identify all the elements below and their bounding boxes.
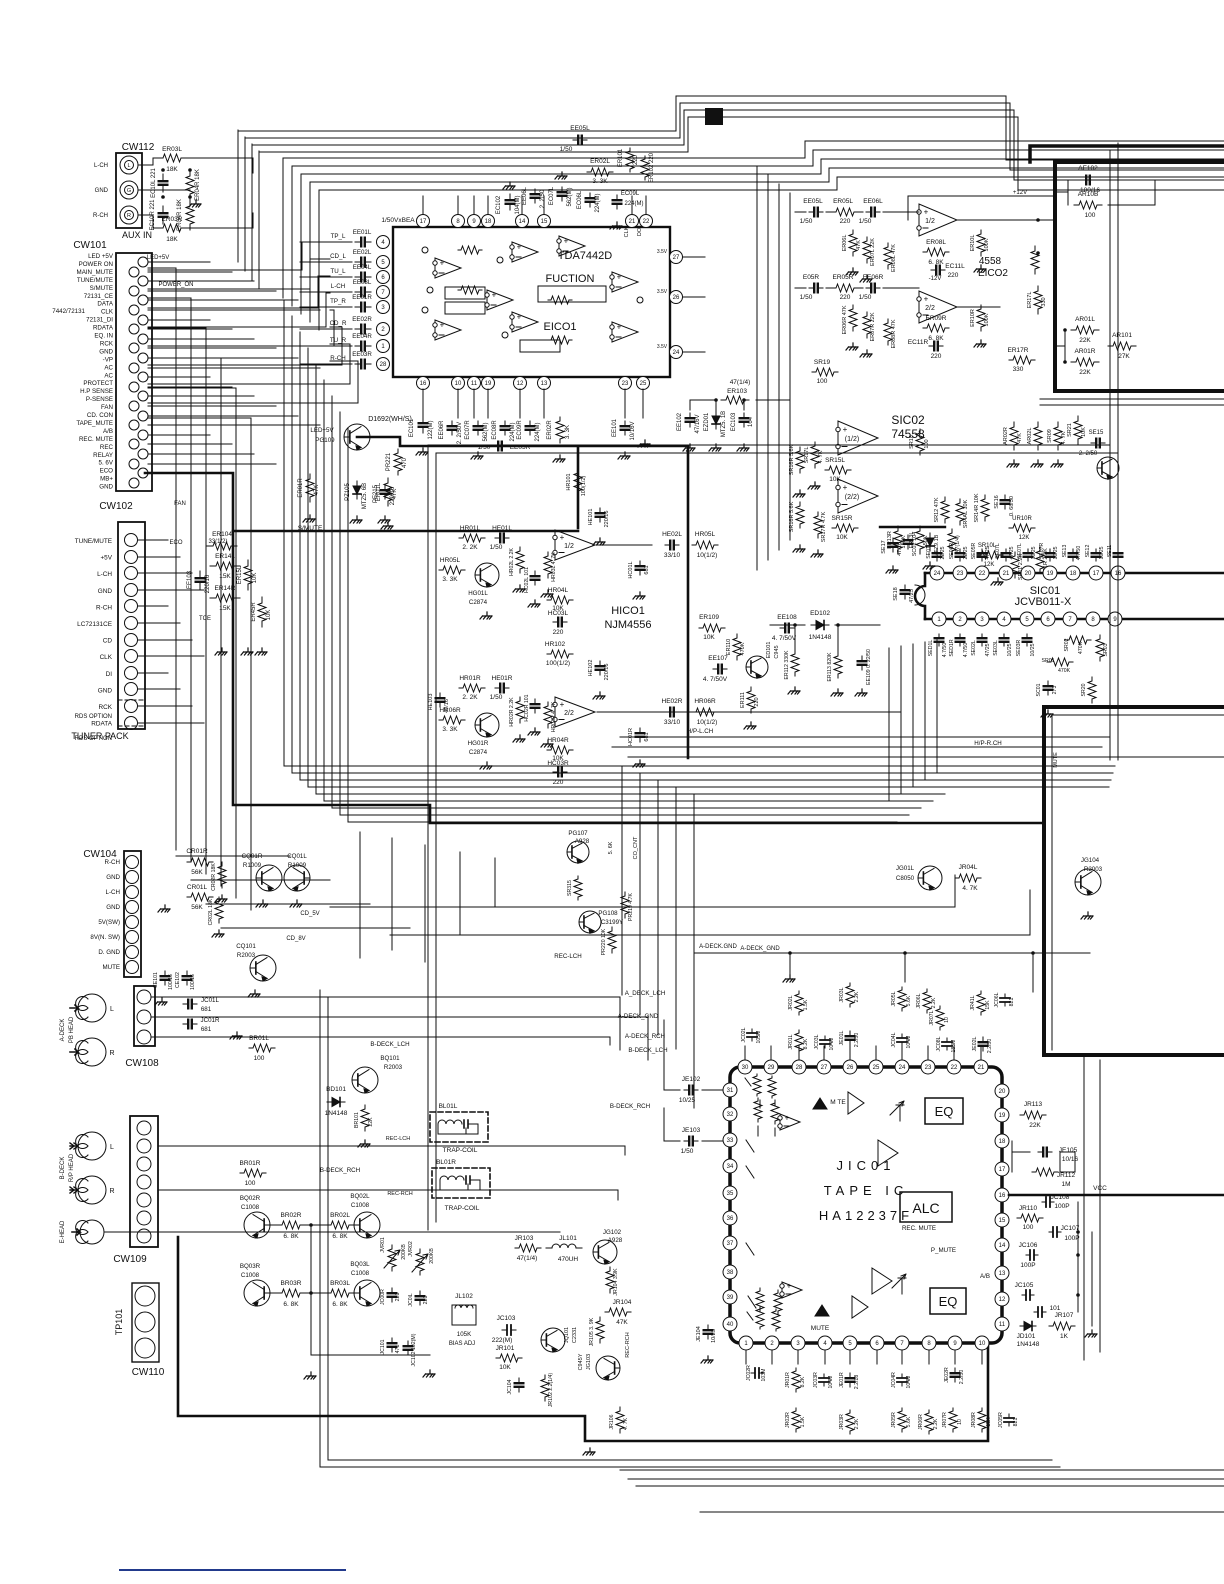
svg-text:PR220 10K: PR220 10K (601, 928, 607, 955)
svg-text:EE01R: EE01R (352, 294, 372, 301)
resistor JR102 2.2(1/4) (541, 1375, 549, 1401)
svg-text:10/25: 10/25 (1030, 643, 1036, 656)
svg-text:L-CH: L-CH (331, 283, 345, 290)
svg-text:34: 34 (727, 1164, 734, 1170)
svg-text:3.5V: 3.5V (657, 249, 668, 255)
connector CW104 box (124, 851, 141, 977)
svg-text:562(M): 562(M) (483, 422, 489, 441)
opamp EIC02 1/2 (919, 204, 957, 236)
svg-text:10K: 10K (829, 476, 841, 483)
transistor JG01L C8050 (918, 866, 942, 890)
svg-text:1/2: 1/2 (925, 218, 935, 225)
svg-text:JR101: JR101 (496, 1345, 515, 1352)
svg-text:0. 68/50: 0. 68/50 (1009, 496, 1015, 516)
frame lower box left (320, 990, 1060, 1467)
thick bus VCC (1009, 1194, 1224, 1197)
svg-text:2.2/50: 2.2/50 (959, 1370, 965, 1385)
svg-text:JE01L: JE01L (839, 1031, 845, 1046)
svg-text:22: 22 (951, 1065, 958, 1071)
svg-text:1/50: 1/50 (859, 294, 872, 301)
svg-text:26: 26 (673, 295, 680, 301)
svg-text:HE01L: HE01L (492, 525, 512, 532)
thick seg SE17 (880, 526, 945, 528)
svg-text:H.P SENSE: H.P SENSE (80, 388, 113, 395)
pot JVR01 200KB (388, 1245, 396, 1271)
resistor SR10L 12K (977, 551, 1003, 559)
svg-text:+: + (617, 273, 622, 282)
svg-text:2.2K: 2.2K (931, 997, 937, 1008)
svg-text:JC105: JC105 (1015, 1282, 1034, 1289)
resistor JR104 47K (605, 1308, 631, 1316)
TP101 pins (135, 1286, 155, 1306)
zener SZD01 MTZ9.1B (929, 533, 931, 551)
svg-text:222(M): 222(M) (492, 1337, 513, 1344)
transistor PG108 C3199Y (579, 911, 601, 933)
svg-text:470K: 470K (740, 642, 746, 655)
svg-text:SE03L: SE03L (993, 640, 999, 656)
capacitor EC101 122(M) (422, 417, 424, 433)
zener PZ105 MTZ5.6B (356, 481, 358, 499)
svg-text:47K: 47K (314, 485, 320, 496)
svg-text:47/16: 47/16 (444, 699, 450, 713)
EIC01 internal circles (422, 247, 428, 253)
svg-text:JC04R: JC04R (891, 1372, 897, 1388)
svg-text:L: L (110, 1006, 114, 1013)
svg-text:+: + (924, 208, 929, 217)
ground e25 (641, 440, 650, 444)
svg-text:47(1/4): 47(1/4) (517, 1255, 538, 1262)
svg-text:22/25: 22/25 (940, 546, 946, 559)
svg-text:R-CH: R-CH (330, 355, 345, 362)
svg-text:JL102: JL102 (455, 1293, 473, 1300)
resistor ER103 47(1/4) (721, 396, 749, 404)
svg-text:EC09R: EC09R (517, 420, 523, 440)
svg-text:38: 38 (727, 1270, 734, 1276)
svg-text:100/16: 100/16 (168, 974, 174, 990)
svg-text:R-CH: R-CH (105, 859, 120, 866)
svg-text:GND: GND (99, 484, 113, 491)
svg-text:EC11R: EC11R (908, 339, 929, 346)
svg-text:2/2: 2/2 (564, 710, 574, 717)
svg-text:1.5K: 1.5K (800, 1416, 806, 1427)
svg-text:CR01R: CR01R (186, 848, 208, 855)
svg-text:JR07L: JR07L (929, 1010, 935, 1025)
resistor ER01R 47K (306, 474, 314, 502)
svg-text:ER07L 22K: ER07L 22K (870, 238, 876, 266)
svg-text:104M: 104M (829, 1038, 835, 1051)
svg-text:EE04R: EE04R (352, 333, 372, 340)
svg-text:R: R (127, 213, 131, 219)
transistor BQ03R C1008 (244, 1280, 270, 1306)
svg-text:L: L (127, 163, 130, 169)
svg-text:14: 14 (999, 1243, 1006, 1249)
connector CW112 (116, 153, 142, 228)
capacitor HE101 220/16 (599, 508, 601, 522)
svg-text:22K: 22K (1029, 1122, 1041, 1129)
svg-text:D. GND: D. GND (98, 949, 120, 956)
svg-text:REC-LCH: REC-LCH (554, 953, 582, 960)
E-HEAD (80, 1220, 104, 1244)
ground eic02b (977, 340, 986, 344)
wire bottom vertical (1084, 1055, 1100, 1360)
svg-text:47/25: 47/25 (985, 546, 991, 559)
EIC01 internal resistors (458, 286, 482, 294)
svg-text:20: 20 (1025, 571, 1032, 577)
B-DECK head L (78, 1132, 106, 1160)
capacitor HE103 47/16 (439, 693, 441, 707)
connector CW102 box (118, 522, 145, 729)
wire bundle mid vertical (283, 300, 285, 766)
CW104 pins (126, 856, 139, 869)
svg-text:MTZ5. 1B: MTZ5. 1B (721, 411, 727, 437)
svg-text:PG107: PG107 (568, 830, 588, 837)
svg-text:183M: 183M (951, 1040, 957, 1053)
svg-text:A/B: A/B (103, 428, 113, 435)
svg-text:REC. MUTE: REC. MUTE (902, 1225, 936, 1232)
svg-text:+: + (787, 1282, 792, 1291)
svg-text:10/25: 10/25 (1053, 546, 1059, 559)
resistor SR14R 10K (981, 495, 989, 521)
svg-text:JR110: JR110 (1019, 1205, 1038, 1212)
opamp HIC01 1/2 (555, 530, 595, 560)
svg-text:GND: GND (95, 188, 109, 194)
capacitor SC02 104 (907, 535, 909, 549)
svg-text:TAPE_MUTE: TAPE_MUTE (76, 420, 113, 427)
svg-text:SE06R: SE06R (949, 543, 955, 560)
svg-text:GND: GND (106, 874, 120, 881)
svg-text:ER113 820K: ER113 820K (827, 652, 833, 682)
svg-text:27K: 27K (1118, 353, 1130, 360)
svg-text:21: 21 (629, 219, 636, 225)
wire CW102 stubs (138, 539, 168, 541)
svg-text:4. 7K: 4. 7K (962, 885, 978, 892)
resistor CR02R 18K (218, 862, 226, 888)
svg-text:27: 27 (673, 255, 680, 261)
resistor SR15L 10K (825, 466, 851, 474)
svg-text:JR103: JR103 (515, 1235, 534, 1242)
svg-text:POWER ON: POWER ON (79, 261, 113, 268)
svg-text:JL101: JL101 (559, 1235, 577, 1242)
wire eic02 routes (908, 196, 1055, 307)
svg-text:+12V: +12V (1013, 190, 1027, 196)
resistor ER01L 47K (384, 478, 392, 506)
svg-text:RELAY: RELAY (93, 452, 113, 459)
svg-text:221: 221 (395, 1293, 401, 1302)
svg-text:JE02L: JE02L (972, 1037, 978, 1052)
opamp EIC02 2/2 (919, 291, 957, 323)
svg-text:PG109: PG109 (315, 437, 335, 444)
svg-text:25: 25 (640, 381, 647, 387)
svg-text:EC103: EC103 (731, 412, 737, 431)
svg-text:10K: 10K (266, 610, 272, 621)
svg-text:ER10R: ER10R (970, 309, 976, 327)
svg-text:1.5K: 1.5K (803, 999, 809, 1010)
svg-text:47/25: 47/25 (985, 643, 991, 656)
svg-text:JE104: JE104 (696, 1326, 702, 1342)
wire bq mid (270, 1225, 430, 1355)
svg-text:BR02R: BR02R (281, 1212, 302, 1219)
svg-text:-12V: -12V (929, 276, 942, 282)
svg-text:EC09L: EC09L (621, 191, 640, 197)
resistor ER08R 47K (884, 319, 892, 345)
svg-text:EC11L: EC11L (945, 263, 965, 270)
svg-text:AE102: AE102 (1078, 165, 1098, 172)
svg-text:AR101: AR101 (1112, 332, 1132, 339)
svg-text:2.2/50: 2.2/50 (854, 1033, 860, 1048)
resistor HR101 100(1/2) (574, 469, 582, 495)
resistor ER111 220 (747, 687, 755, 713)
svg-text:R1009: R1009 (288, 862, 307, 869)
svg-text:CR02L 18K: CR02L 18K (208, 898, 214, 925)
transistor JQ101 C2331 (541, 1328, 565, 1352)
svg-text:JR05L: JR05L (891, 991, 897, 1006)
capacitor HE02R 33/10 (665, 711, 679, 713)
wire ED102 net (770, 625, 880, 655)
svg-text:CLK: CLK (100, 654, 113, 661)
capacitor JC106 100P (1026, 1254, 1038, 1256)
resistor HR06R 3.3K (439, 716, 465, 724)
svg-text:JR01R: JR01R (785, 1372, 791, 1388)
EIC01 right pins (670, 251, 683, 264)
capacitor JC104 (518, 1378, 520, 1392)
svg-text:11: 11 (471, 381, 478, 387)
capacitor EE109 0.22/50 (861, 656, 863, 670)
inductor JL101 470UH (546, 1244, 582, 1248)
wire jright net (1078, 1202, 1092, 1326)
svg-text:1/50: 1/50 (490, 694, 503, 701)
svg-text:BL01R: BL01R (436, 1159, 456, 1166)
svg-text:JD101: JD101 (1017, 1333, 1036, 1340)
svg-text:10K: 10K (499, 1364, 511, 1371)
capacitor JC101 471 (391, 1338, 393, 1352)
svg-text:ECO: ECO (100, 468, 114, 475)
transistor BQ101 R2003 (352, 1067, 378, 1093)
JIC01 small opamp l1 (780, 1114, 800, 1130)
svg-text:B-DECK_RCH: B-DECK_RCH (610, 1103, 650, 1110)
svg-text:EQ. IN: EQ. IN (94, 333, 113, 340)
svg-text:ER03R: ER03R (162, 216, 183, 223)
svg-text:100(1/2): 100(1/2) (581, 476, 587, 497)
resistor ER15R 10K (258, 597, 266, 627)
svg-text:HC01L: HC01L (628, 561, 634, 578)
frame right vertical pair (1110, 143, 1118, 760)
svg-text:HR03L 4. 7K: HR03L 4. 7K (551, 552, 557, 582)
svg-text:SE07L: SE07L (995, 543, 1001, 559)
svg-text:JR106: JR106 (609, 1414, 615, 1429)
capacitor EC11R 220 (929, 345, 943, 347)
svg-text:PROTECT: PROTECT (83, 380, 113, 387)
resistor AR02R 47K (1010, 422, 1018, 450)
ground bottommid (426, 1370, 435, 1374)
svg-text:REC-RCH: REC-RCH (387, 1191, 412, 1197)
svg-text:31: 31 (727, 1088, 734, 1094)
resistor SR21 10K (1074, 416, 1082, 444)
svg-text:BIAS ADJ: BIAS ADJ (449, 1341, 475, 1347)
svg-text:ER112 330K: ER112 330K (784, 650, 790, 680)
svg-text:B-DECK_RCH: B-DECK_RCH (320, 1167, 360, 1174)
resistor ER104 33(1/2) (207, 542, 237, 550)
svg-text:16: 16 (999, 1193, 1006, 1199)
svg-text:SR21: SR21 (1067, 423, 1073, 437)
JIC01 EQ box 2 (930, 1288, 966, 1314)
svg-text:37: 37 (727, 1241, 734, 1247)
svg-text:15K: 15K (986, 1417, 992, 1427)
svg-text:D1692(WH/S): D1692(WH/S) (368, 416, 412, 423)
svg-text:ALC: ALC (912, 1200, 939, 1216)
ground bq (307, 1372, 316, 1376)
svg-text:M TE: M TE (830, 1099, 846, 1106)
capacitor EC103 104 (743, 413, 745, 427)
svg-text:EE05L: EE05L (803, 198, 823, 205)
svg-text:ER13L: ER13L (909, 532, 915, 549)
svg-text:562(M): 562(M) (567, 187, 573, 206)
svg-text:SR315: SR315 (567, 880, 573, 896)
svg-text:C8050: C8050 (896, 875, 915, 882)
resistor ER07L 22K (863, 237, 871, 263)
wire AR01 junctions (1055, 330, 1065, 362)
capacitor JE105 10/16 (1038, 1151, 1052, 1153)
svg-text:HE101: HE101 (588, 509, 594, 526)
svg-text:BL01L: BL01L (439, 1103, 458, 1110)
svg-text:6. 8K: 6. 8K (928, 335, 944, 342)
svg-text:EZD01: EZD01 (704, 412, 710, 431)
svg-text:HA12237F: HA12237F (819, 1208, 913, 1223)
svg-text:+: + (617, 323, 622, 332)
ground jc01 (233, 1032, 242, 1036)
svg-text:RDATA: RDATA (91, 721, 112, 728)
svg-text:29: 29 (768, 1065, 775, 1071)
svg-text:2.2K: 2.2K (854, 991, 860, 1002)
opamp HIC01 2/2 (555, 697, 595, 727)
svg-text:EC07R: EC07R (465, 420, 471, 440)
svg-text:3. 3K: 3. 3K (442, 726, 458, 733)
svg-text:+: + (924, 295, 929, 304)
svg-text:JC104: JC104 (507, 1379, 513, 1394)
svg-text:EC06L: EC06L (577, 190, 583, 209)
svg-text:BR01L: BR01L (249, 1035, 269, 1042)
svg-text:JR01L: JR01L (788, 1034, 794, 1049)
svg-text:-VP: -VP (103, 356, 113, 363)
wire JE105 loop (1012, 1141, 1075, 1172)
svg-text:SR16R 5.6K: SR16R 5.6K (789, 444, 795, 475)
svg-text:JE102: JE102 (682, 1076, 701, 1083)
wire CD_5V line (330, 875, 955, 907)
svg-text:100P: 100P (1020, 1262, 1035, 1269)
svg-text:10/25: 10/25 (1031, 546, 1037, 559)
capacitor EE06R 2.2/50V (451, 421, 453, 435)
svg-text:10/25: 10/25 (1099, 546, 1105, 559)
diode JD101 1N4148 (1020, 1325, 1036, 1327)
svg-text:SR19: SR19 (814, 359, 831, 366)
JIC01 EQ box 1 (925, 1098, 963, 1124)
svg-text:L-CH: L-CH (106, 889, 120, 896)
wire HP pairs (612, 712, 1224, 757)
svg-text:DO: DO (637, 227, 643, 236)
svg-text:EE109 0. 22/50: EE109 0. 22/50 (866, 649, 872, 685)
svg-text:BQ03R: BQ03R (240, 1263, 261, 1270)
capacitor SE16 0.68/50 (1004, 495, 1006, 509)
svg-text:5V(SW): 5V(SW) (98, 919, 120, 926)
svg-text:3. 3K: 3. 3K (442, 576, 458, 583)
svg-text:CD_5V: CD_5V (300, 911, 319, 917)
svg-text:A928: A928 (575, 838, 590, 845)
svg-text:TU_L: TU_L (330, 268, 346, 275)
resistor HR05R 10(1/2) (692, 708, 718, 716)
ground PZ105 (353, 516, 362, 520)
svg-text:HE02L: HE02L (662, 531, 682, 538)
svg-text:220: 220 (840, 218, 851, 225)
capacitor JC01R 681 (183, 1023, 197, 1025)
resistor CR01L 56K (187, 893, 213, 901)
resistor ER14L 15K (210, 562, 240, 570)
ground EC09L (613, 222, 622, 226)
SIC01 upper bus (925, 572, 1224, 575)
svg-text:220: 220 (754, 697, 760, 706)
ground ER (218, 648, 227, 652)
wire deck verticals (360, 832, 495, 962)
svg-text:EE02L: EE02L (353, 249, 372, 256)
resistor JR104v 3.9K (606, 1267, 614, 1293)
svg-text:HE102: HE102 (588, 660, 594, 677)
transistor BQ02R C1008 (244, 1212, 270, 1238)
svg-text:25: 25 (873, 1065, 880, 1071)
svg-text:EE03R: EE03R (352, 351, 372, 358)
transistor JG103 C945Y (596, 1356, 620, 1380)
svg-text:SE05R: SE05R (971, 543, 977, 560)
svg-text:ER45R: ER45R (251, 602, 257, 622)
svg-text:JCVB011-X: JCVB011-X (1015, 596, 1072, 608)
svg-text:ER08R 47K: ER08R 47K (891, 319, 897, 348)
svg-text:470: 470 (402, 457, 408, 468)
wire SIC01 pin drops (888, 648, 890, 801)
svg-text:1N4148: 1N4148 (1017, 1341, 1040, 1348)
svg-text:EE02R: EE02R (352, 316, 372, 323)
svg-text:33/10: 33/10 (664, 719, 681, 726)
svg-text:L-CH: L-CH (97, 571, 112, 578)
capacitor EE05L 1/50 (573, 139, 587, 141)
svg-text:E05R: E05R (803, 274, 820, 281)
svg-text:SR14R 10K: SR14R 10K (974, 493, 980, 522)
svg-text:72131_DI: 72131_DI (86, 317, 113, 324)
wire AE102 loop (1055, 180, 1155, 205)
svg-text:100K: 100K (984, 238, 990, 251)
svg-text:BR101: BR101 (354, 1112, 360, 1128)
svg-text:MB+: MB+ (100, 476, 113, 483)
svg-text:GND: GND (106, 904, 120, 911)
ground eic02a (977, 265, 986, 269)
svg-text:ER102 220: ER102 220 (649, 152, 655, 183)
svg-text:104: 104 (748, 416, 754, 427)
svg-text:+: + (440, 259, 445, 268)
capacitor HC01R 681 (639, 728, 641, 742)
svg-text:SE15: SE15 (1089, 430, 1104, 436)
svg-text:RDATA: RDATA (93, 325, 114, 332)
svg-text:104M: 104M (906, 1036, 912, 1049)
JIC01 small opamp l2 (782, 1282, 802, 1298)
svg-text:JR08R: JR08R (971, 1412, 977, 1428)
CW112 pin R (120, 206, 138, 224)
svg-text:SR09: SR09 (1047, 429, 1053, 443)
resistor AR01L 22K (1071, 326, 1099, 334)
capacitor JC103 222(M) (502, 1329, 516, 1331)
svg-text:ER08L: ER08L (926, 239, 946, 246)
A-DECK head L (78, 994, 106, 1022)
svg-text:EC08R: EC08R (492, 420, 498, 440)
svg-text:100: 100 (1023, 1224, 1034, 1231)
ground cr02 (218, 895, 227, 899)
capacitor JE102 10/25 (684, 1089, 698, 1091)
svg-text:224(M): 224(M) (535, 422, 541, 441)
